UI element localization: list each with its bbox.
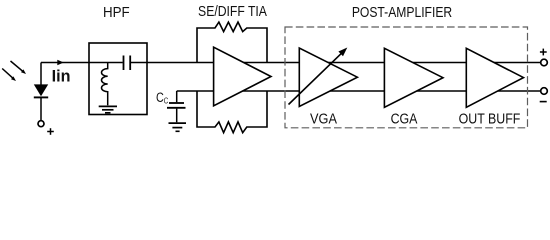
svg-text:Iin: Iin	[52, 66, 71, 85]
svg-text:POST-AMPLIFIER: POST-AMPLIFIER	[352, 4, 452, 20]
svg-text:OUT BUFF: OUT BUFF	[459, 110, 521, 126]
svg-text:HPF: HPF	[103, 4, 130, 21]
svg-text:SE/DIFF TIA: SE/DIFF TIA	[198, 3, 268, 19]
svg-text:CGA: CGA	[391, 110, 419, 126]
svg-text:C: C	[156, 90, 164, 106]
svg-text:VGA: VGA	[310, 109, 338, 126]
svg-text:C: C	[164, 97, 168, 106]
